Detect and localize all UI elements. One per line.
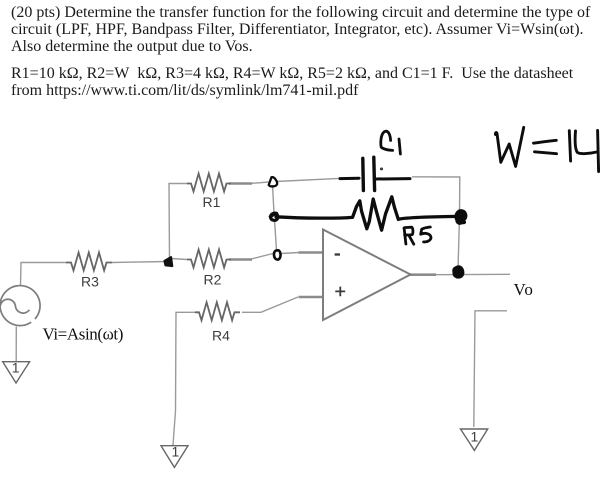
svg-text:R4: R4 bbox=[212, 328, 230, 344]
svg-text:1: 1 bbox=[471, 429, 479, 445]
svg-text:R3: R3 bbox=[81, 274, 99, 290]
svg-text:1: 1 bbox=[172, 444, 180, 460]
svg-text:Vi=Asin(ωt): Vi=Asin(ωt) bbox=[43, 324, 124, 343]
svg-text:Vo: Vo bbox=[514, 280, 534, 299]
svg-text:R2: R2 bbox=[204, 271, 222, 287]
svg-text:1: 1 bbox=[12, 360, 20, 376]
svg-text:R1: R1 bbox=[203, 194, 221, 210]
